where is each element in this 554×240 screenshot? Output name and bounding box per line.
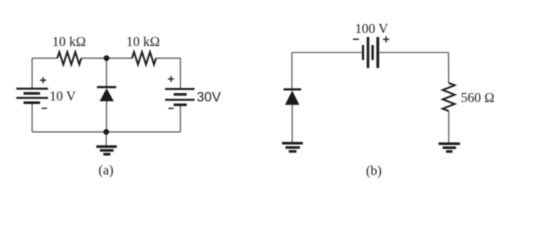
svg-text:(a): (a) [99, 163, 114, 178]
wire: ground stem circuit a [105, 132, 107, 146]
ground: circuit b left [282, 142, 303, 153]
wire: circuit a right vertical lower [179, 105, 181, 132]
svg-text:30V: 30V [197, 90, 221, 105]
wire: diode branch upper stem [106, 58, 108, 86]
svg-text:10 V: 10 V [50, 89, 77, 104]
resistor R1 10 kOhm left [52, 34, 86, 65]
node: bottom junction dot [103, 129, 109, 135]
wire: circuit b right vertical [448, 53, 450, 84]
label (a) [99, 163, 114, 178]
wire: circuit a top middle segment [81, 57, 132, 59]
wire: circuit a bottom [32, 131, 180, 133]
diode D2 circuit b [284, 88, 302, 105]
svg-text:10 kΩ: 10 kΩ [126, 34, 160, 49]
wire: circuit a right vertical upper [179, 58, 181, 89]
ground: circuit a [96, 145, 117, 155]
resistor R3 560 Ohm [443, 83, 495, 111]
svg-text:100 V: 100 V [355, 21, 388, 36]
ground: circuit b right [439, 142, 461, 152]
svg-text:560 Ω: 560 Ω [461, 90, 495, 105]
wire: circuit b right lower stem [448, 111, 450, 143]
wire: circuit a top right segment [156, 57, 180, 59]
wire: circuit b top left segment [292, 52, 362, 54]
svg-text:(b): (b) [366, 163, 382, 178]
battery V1 10V [16, 77, 76, 108]
battery V3 100V [353, 21, 389, 68]
wire: diode branch lower stem [106, 101, 108, 132]
node: top junction dot [104, 55, 110, 61]
wire: circuit a left vertical upper [31, 58, 33, 88]
wire: circuit b left lower stem [291, 105, 293, 143]
battery V2 30V [165, 76, 221, 108]
resistor R2 10 kOhm right [126, 34, 160, 65]
wire: circuit a top-left segment [32, 57, 57, 59]
diode D1 circuit a [97, 86, 116, 101]
wire: circuit b left vertical [291, 53, 293, 89]
wire: circuit b top right segment [379, 52, 448, 54]
label (b) [366, 163, 382, 178]
wire: circuit a left vertical lower [31, 103, 33, 132]
svg-text:10 kΩ: 10 kΩ [52, 34, 86, 49]
